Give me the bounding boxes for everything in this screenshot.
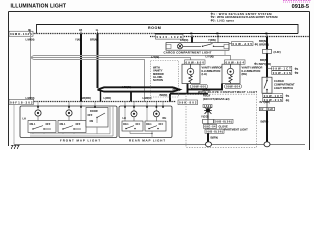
svg-text:DOOR: DOOR [90,109,98,113]
svg-text:REAR MAP LIGHT: REAR MAP LIGHT [129,139,165,143]
svg-text:Y(N): Y(N) [75,38,81,42]
wire bundle line 3 [34,60,145,102]
svg-text:(3-4F): (3-4F) [274,50,281,54]
connector label 09B-8(06) a [214,119,233,123]
connector label 09G-04 [204,123,217,129]
inline connector C-22 [260,107,275,111]
outer frame left rule [8,12,10,147]
svg-text:LH: LH [123,116,127,120]
bus connector line (left) [9,33,156,35]
connector label 09W-21S ※2 (upper) [272,70,299,75]
glove compartment light bulb [204,107,212,120]
caption VANITY MIRROR ILLUMINATION (RH) [242,66,263,76]
cargo compartment light switch [262,77,272,93]
wire L/R(N) drop to cargo light [191,37,193,43]
svg-text:L/W(N): L/W(N) [143,96,152,100]
svg-text:ON-1: ON-1 [30,123,36,126]
wire BR(N) mid [266,53,268,77]
outer frame top rule [9,11,310,13]
svg-text:OFF: OFF [76,123,81,126]
wire bulb2 feed [68,102,70,110]
wire Y(N) thick drop [80,34,82,102]
wire trunk to bus stub [130,92,132,102]
svg-text:L/Y(N): L/Y(N) [206,55,214,59]
svg-text:L/R(N): L/R(N) [180,38,188,42]
svg-text:Y(GO): Y(GO) [201,115,209,119]
connector label 09B-8(06) b [205,129,224,133]
svg-text:B/Y(RD): B/Y(RD) [260,100,270,104]
vanity mirror illumination LH [182,64,200,83]
switch rear LH [122,121,143,131]
option box WITH VANITY MIRROR ILLUMINATION [151,61,179,98]
svg-text:777: 777 [11,145,20,150]
svg-text:ON: ON [90,120,94,123]
svg-text:ROOM: ROOM [148,26,161,30]
svg-text:L/W(N): L/W(N) [26,38,35,42]
wire fan-out node [31,56,34,60]
caption GLOVE COMPARTMENT LIGHT [219,124,249,131]
svg-text:LH: LH [23,116,27,120]
connector label 1F03 [203,104,212,108]
svg-text:09W-1CT: 09W-1CT [273,67,291,71]
wire BR(N) drop right [266,37,268,50]
bulb front RH [66,110,72,121]
wire left ground stub [13,104,15,141]
svg-text:L/Y(N): L/Y(N) [151,55,159,59]
svg-text:09W-21S: 09W-21S [273,71,291,75]
connector label 09W-A05 [229,42,253,46]
svg-text:L/W(N): L/W(N) [122,85,131,89]
pin 1L [96,28,99,33]
svg-text:0918-5: 0918-5 [292,4,309,10]
svg-text:4E: 4E [265,31,268,35]
svg-text:ILLUMINATION LIGHT: ILLUMINATION LIGHT [11,3,67,9]
rear map light [119,102,172,143]
connector label 09W-600 (bottom) [191,84,208,88]
svg-text:BR(N): BR(N) [90,38,98,42]
pin 4E [265,31,268,36]
svg-text:BR(N): BR(N) [173,87,181,91]
svg-text:BR(N): BR(N) [259,39,267,43]
connector label 09K-802 [178,100,198,105]
connector label 0940-102D [156,34,184,39]
connector label 09MO-102A [9,31,33,36]
pin 4P [216,31,219,36]
svg-text:09G-04: 09G-04 [205,125,217,129]
svg-text:(09CU/CT,09DA/SS ※3): (09CU/CT,09DA/SS ※3) [203,97,230,101]
ground rail [14,144,305,146]
svg-text:09K-802: 09K-802 [179,101,197,105]
svg-text:09W-600: 09W-600 [186,60,205,64]
svg-text:※3 : L.H.D. specs: ※3 : L.H.D. specs [211,17,235,22]
wire bulb1 feed [37,102,39,110]
connector label 09W-604 (bottom) [225,84,242,88]
svg-text:CARGO: CARGO [274,79,284,83]
svg-text:WITH GLOVE COMPARTMENT LIGHT: WITH GLOVE COMPARTMENT LIGHT [198,90,257,94]
pin 3E [28,28,31,33]
internal collector wires rear [130,131,153,138]
connector label 09W-1CT ※1 (lower) [263,93,290,98]
svg-text:B(RN): B(RN) [261,120,269,124]
joint connector 3-4F [263,49,281,53]
wire B(RN) ground drop [266,111,268,143]
wire bundle line 1 [34,56,231,60]
svg-text:RH: RH [163,116,167,120]
svg-text:09B-8(06): 09B-8(06) [206,130,223,134]
svg-text:09MO-102A: 09MO-102A [10,32,33,36]
front map light [20,102,117,143]
connector label 09F18-302 [9,99,34,104]
svg-text:3E: 3E [28,28,31,32]
svg-text:Y(RN): Y(RN) [208,38,216,42]
svg-text:OFF: OFF [88,114,93,117]
switch front RH [58,121,86,133]
wire BR(N) thick drop [97,34,99,88]
switch rear RH [145,121,166,131]
svg-text:ON-1: ON-1 [146,124,152,126]
svg-text:LIGHT SWITCH: LIGHT SWITCH [274,86,293,90]
switch front LH [28,121,56,133]
bus connector line 3 [9,101,177,103]
pin marks front box [37,106,96,108]
inline connector pair glove [203,119,214,123]
svg-text:4P: 4P [216,31,219,35]
ground point right [264,142,270,147]
wire Y(RN) drop [217,37,219,43]
wire B/Y(RD) [266,102,268,108]
svg-text:FRONT MAP LIGHT: FRONT MAP LIGHT [60,139,100,143]
svg-text:0940-102D: 0940-102D [157,35,183,39]
bulb front LH [35,110,41,121]
svg-text:B(RN): B(RN) [211,136,219,140]
door switch box [86,108,108,128]
svg-text:09W-1CT: 09W-1CT [264,94,282,98]
wire switch feed [80,102,82,121]
cargo compartment light [166,43,229,51]
connector label 09W-600 (top) [185,60,206,65]
watermark fragment (magenta, cropped) [283,1,311,2]
thick bundle fan node [98,87,180,91]
wire B(RN) glove ground [207,133,209,142]
pin 4F [190,31,193,36]
wire bundle line 2 [34,58,191,60]
svg-text:BR(N): BR(N) [160,93,168,97]
wire L/W(N) drop [30,34,32,102]
vanity mirror illumination RH [222,64,240,83]
svg-text:GR(RD): GR(RD) [81,96,91,100]
caption VANITY MIRROR ILLUMINATION (LH) [202,66,223,76]
internal collector wires front [30,106,113,136]
wire L(RD) stub to bus [100,91,102,101]
svg-text:C-22: C-22 [268,109,274,111]
svg-text:CARGO COMPARTMENT LIGHT: CARGO COMPARTMENT LIGHT [164,50,212,54]
svg-text:NATION: NATION [153,78,163,82]
svg-text:BR(N): BR(N) [260,58,268,62]
svg-text:09W-600: 09W-600 [192,85,206,89]
svg-text:COMPARTMENT: COMPARTMENT [274,83,295,87]
option box WITH GLOVE COMPARTMENT LIGHT [186,90,257,147]
wire rear feeds [125,102,163,121]
pin 1B [79,28,82,33]
svg-text:09W-604: 09W-604 [226,60,245,64]
bulb rear RH [153,111,159,121]
svg-text:OFF: OFF [159,124,164,126]
svg-text:09F18-302: 09F18-302 [10,100,33,104]
outer frame right rule [309,12,311,151]
svg-text:OFF: OFF [46,123,51,126]
svg-text:ON-1: ON-1 [60,123,66,126]
ground point glove [206,142,212,147]
svg-text:09W-604: 09W-604 [226,85,240,89]
fuse box ROOM [37,25,299,34]
svg-text:1L: 1L [96,28,99,32]
svg-text:4F: 4F [190,31,193,35]
svg-text:(RH): (RH) [242,72,248,76]
svg-text:OFF: OFF [136,124,141,126]
connector label 09W-1CT ※1 (upper) [267,66,299,71]
svg-text:(LH): (LH) [202,72,207,76]
wire cargo output [224,50,226,55]
svg-text:L(RD): L(RD) [104,96,112,100]
wire BR(N) return trunk [170,84,222,102]
connector label 09W-604 (top) [225,60,246,65]
bus connector line (right) [150,36,310,38]
svg-text:ON-1: ON-1 [123,124,129,126]
connector label 09W-21S ※2 (lower) [263,98,290,103]
svg-text:1B: 1B [79,28,82,32]
wire door switch feed [94,102,96,108]
caption CARGO COMPARTMENT LIGHT SWITCH [274,79,295,90]
bulb rear LH [131,111,137,121]
pin marks rear box [124,106,164,108]
svg-text:09B-8(06): 09B-8(06) [215,120,232,124]
